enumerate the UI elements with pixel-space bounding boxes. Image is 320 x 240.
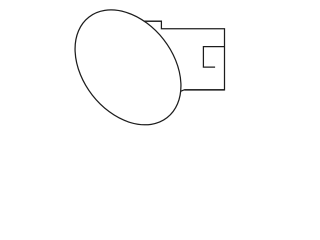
- connector notch: [203, 47, 224, 68]
- connector bracket outline: [138, 21, 225, 92]
- mirror glass body (tilted oval): [53, 0, 203, 145]
- bracket bottom edge (thicker): [184, 89, 224, 91]
- bracket top step edge (reinforce): [142, 20, 161, 22]
